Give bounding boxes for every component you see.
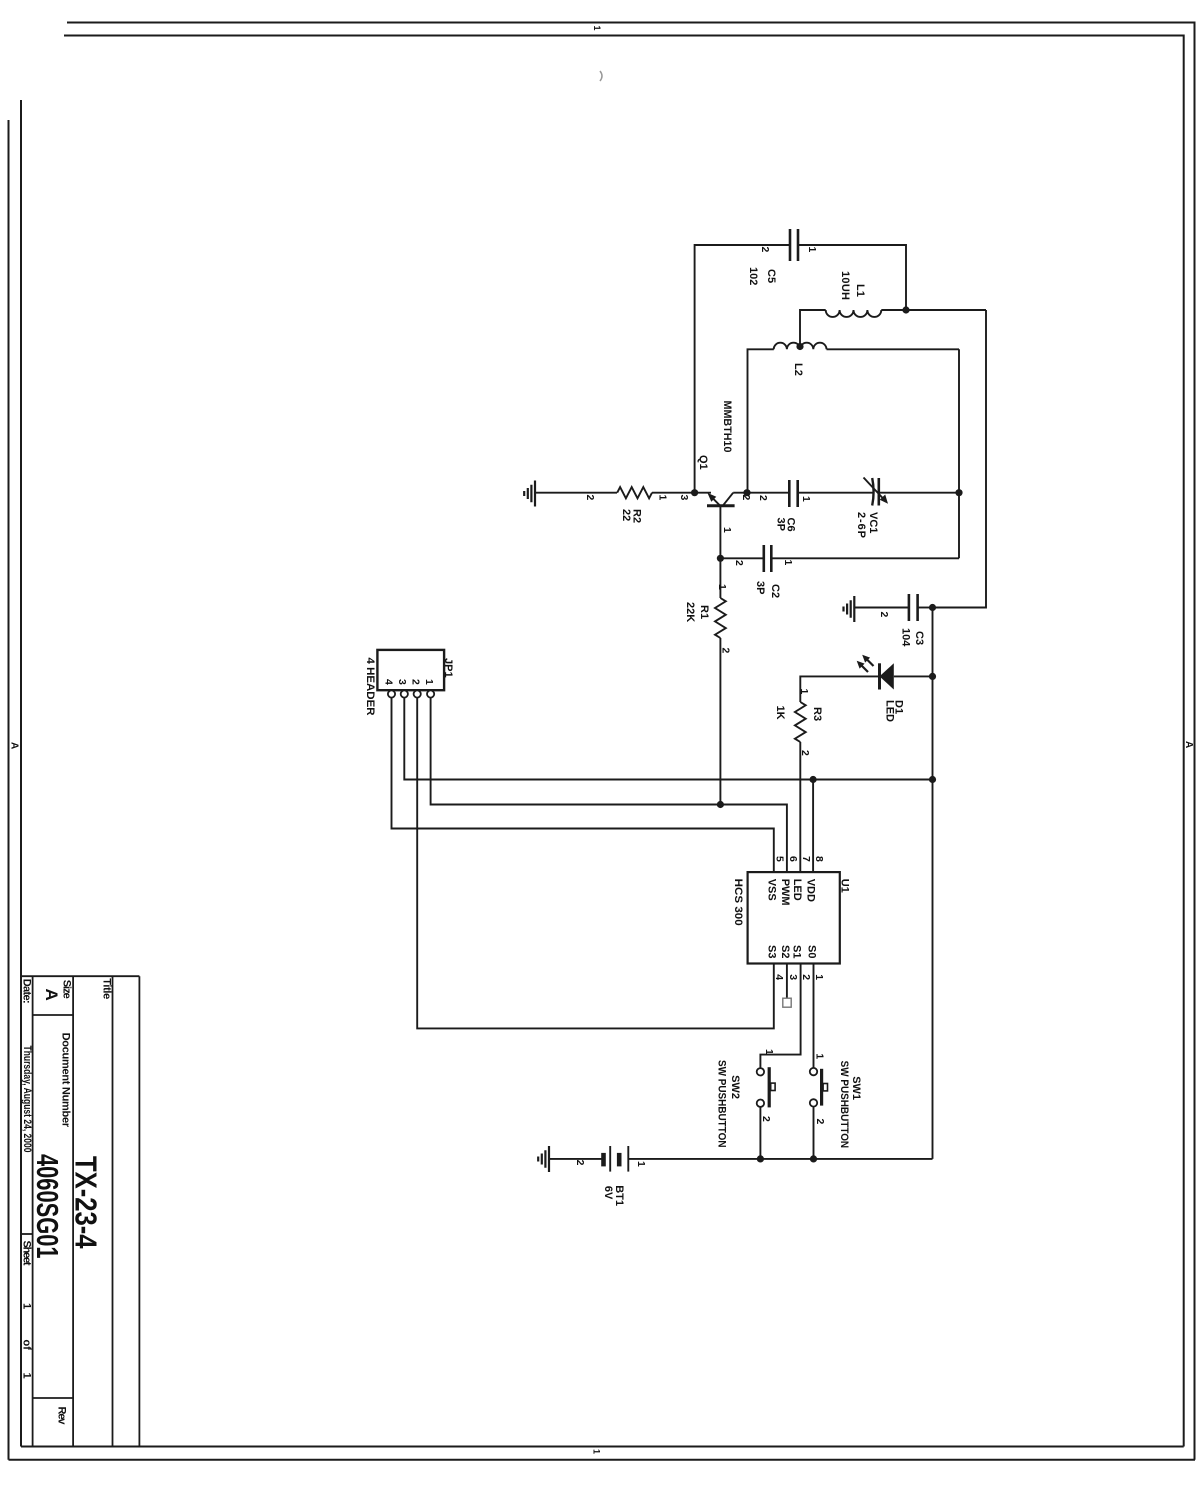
- svg-text:2: 2: [757, 495, 769, 501]
- svg-text:6: 6: [787, 856, 799, 862]
- wire R1 to wire B: [719, 638, 721, 805]
- svg-text:2: 2: [760, 1116, 772, 1122]
- svg-text:Rev: Rev: [56, 1407, 68, 1426]
- svg-text:1: 1: [592, 26, 602, 31]
- variable capacitor VC1: [877, 478, 880, 506]
- svg-text:SW2: SW2: [729, 1075, 741, 1099]
- svg-text:Sheet: Sheet: [21, 1241, 33, 1266]
- svg-text:3: 3: [787, 974, 799, 980]
- battery BT1: [627, 1146, 629, 1172]
- wire VDD rail horizontal: [932, 608, 934, 1159]
- svg-text:5: 5: [774, 856, 786, 862]
- sheet outer border left: [67, 22, 1195, 24]
- svg-text:2: 2: [814, 1119, 826, 1125]
- junction dot L2 tap: [796, 343, 803, 350]
- IC U1 box: [748, 872, 840, 963]
- junction dot C3 rail tee: [929, 604, 936, 611]
- wire top rail horizontal: [933, 310, 987, 608]
- wire U1 pin6 lead and wire B: [431, 698, 787, 873]
- svg-text:2: 2: [574, 1160, 586, 1166]
- resistor R3: [795, 702, 806, 742]
- transistor Q1 emitter lead: [710, 496, 720, 506]
- svg-text:1: 1: [635, 1161, 647, 1167]
- wire battery rail vertical: [628, 1158, 932, 1160]
- wire D1 cathode to R3: [800, 676, 879, 702]
- wire battery to ground: [549, 1158, 604, 1160]
- svg-text:22K: 22K: [684, 602, 696, 622]
- rev box divider: [33, 1397, 74, 1399]
- wire C5 bottom to emitter node: [695, 245, 790, 493]
- ground below R2: [534, 481, 536, 507]
- svg-text:R2: R2: [631, 509, 643, 523]
- svg-text:2: 2: [740, 495, 752, 501]
- svg-text:10UH: 10UH: [839, 271, 851, 300]
- wire L1 bottom lead to L2 tap: [800, 310, 826, 346]
- svg-text:22: 22: [620, 509, 632, 521]
- wire node A vertical to top rail: [906, 309, 986, 311]
- svg-text:1: 1: [763, 1049, 775, 1055]
- svg-text:C5: C5: [765, 269, 777, 283]
- wire C2 top lead: [771, 557, 959, 559]
- wire C3 top lead: [918, 607, 933, 609]
- title block divider under empty row: [112, 976, 114, 1446]
- wire U1 pin1 to SW1: [813, 964, 815, 1068]
- svg-text:L1: L1: [854, 284, 866, 297]
- wire R3 to U1 pin7: [799, 742, 801, 872]
- JP1 pin circles: [427, 690, 434, 697]
- wire SW2 pin2 lead: [759, 1107, 761, 1159]
- wire SW1 pin2 lead: [813, 1107, 815, 1159]
- transistor Q1 base bar: [707, 504, 735, 507]
- svg-text:1: 1: [423, 679, 435, 685]
- LED D1: [880, 663, 894, 689]
- svg-text:1: 1: [592, 1449, 602, 1454]
- svg-text:LED: LED: [884, 700, 896, 722]
- wire JP1 pin2 to S3: [417, 698, 774, 1029]
- wire mid rail horizontal: [958, 349, 960, 558]
- wire C2 bottom lead: [720, 557, 763, 559]
- svg-text:A: A: [42, 989, 61, 1001]
- svg-text:U1: U1: [839, 879, 851, 893]
- svg-text:1: 1: [21, 1373, 33, 1379]
- svg-text:MMBTH10: MMBTH10: [721, 401, 733, 453]
- svg-text:L2: L2: [792, 363, 804, 376]
- junction dot L1 top: [902, 306, 909, 313]
- svg-text:2: 2: [410, 679, 422, 685]
- wire A vertical: [404, 698, 932, 780]
- wire Q1 base lead: [719, 506, 721, 598]
- svg-text:2: 2: [720, 648, 732, 654]
- transistor Q1 collector lead: [723, 493, 734, 506]
- svg-text:SW1: SW1: [850, 1076, 862, 1100]
- resistor R1: [715, 598, 726, 638]
- scan smudge mark: [600, 71, 602, 81]
- svg-text:3: 3: [396, 679, 408, 685]
- svg-text:2: 2: [800, 974, 812, 980]
- junction dot wireA rail tee: [929, 776, 936, 783]
- ground below BT1: [548, 1146, 550, 1172]
- svg-text:8: 8: [813, 856, 825, 862]
- svg-text:4060SG01: 4060SG01: [30, 1154, 65, 1259]
- wire C5 top to corner: [798, 245, 906, 310]
- svg-text:1: 1: [800, 496, 812, 502]
- wire L1 top lead: [881, 309, 906, 311]
- wire U1 pin2 to SW2 jog: [760, 964, 800, 1069]
- LED D1 emission arrows: [866, 658, 874, 666]
- svg-text:Title: Title: [101, 978, 113, 999]
- svg-text:S3: S3: [766, 945, 778, 958]
- connector JP1 box: [377, 650, 444, 690]
- wire U1 pin5 lead and wire C: [392, 698, 774, 873]
- svg-text:1: 1: [657, 495, 669, 501]
- svg-text:A: A: [1183, 741, 1194, 748]
- capacitor C3: [916, 594, 919, 621]
- svg-text:Size: Size: [61, 980, 73, 999]
- junction dot collector node: [743, 489, 750, 496]
- svg-text:C2: C2: [769, 584, 781, 598]
- svg-text:of: of: [21, 1340, 33, 1351]
- svg-text:3P: 3P: [774, 518, 786, 531]
- svg-text:4 HEADER: 4 HEADER: [364, 658, 376, 716]
- svg-text:Document Number: Document Number: [60, 1033, 72, 1128]
- capacitor C6: [796, 480, 799, 507]
- wire U1 pin8 lead: [812, 780, 814, 873]
- wire L2 bottom lead: [748, 349, 774, 492]
- svg-text:S1: S1: [791, 945, 803, 958]
- wire C6 to collector node: [733, 492, 789, 494]
- svg-text:2: 2: [799, 750, 811, 756]
- svg-text:R3: R3: [811, 707, 823, 721]
- inductor L2: [774, 343, 827, 350]
- svg-text:104: 104: [900, 628, 912, 647]
- sheet inner border left: [64, 35, 1184, 37]
- title block divider under title row: [72, 976, 74, 1446]
- sheet outer border right: [9, 1459, 1196, 1461]
- svg-text:6V: 6V: [602, 1186, 614, 1200]
- svg-text:BT1: BT1: [613, 1185, 625, 1206]
- junction dot R1 wire B tee: [717, 801, 724, 808]
- svg-text:7: 7: [800, 856, 812, 862]
- ground below C3: [853, 596, 855, 622]
- switch SW2: [757, 1068, 764, 1075]
- junction dot pin8 wireA tee: [810, 776, 817, 783]
- svg-text:1: 1: [798, 689, 810, 695]
- svg-text:Thursday, August 24, 2000: Thursday, August 24, 2000: [21, 1046, 33, 1153]
- size box divider: [33, 1014, 74, 1016]
- title block divider under size row: [32, 976, 34, 1446]
- junction dot SW2 battery rail: [757, 1155, 764, 1162]
- svg-text:S0: S0: [806, 945, 818, 958]
- svg-text:1: 1: [21, 1303, 33, 1309]
- junction dot C2 bottom tee: [717, 555, 724, 562]
- svg-text:HCS 300: HCS 300: [732, 879, 744, 926]
- junction dot C2 VC1 rail tee: [955, 489, 962, 496]
- svg-text:Q1: Q1: [697, 455, 709, 470]
- svg-text:3: 3: [678, 495, 690, 501]
- svg-text:2: 2: [759, 247, 771, 253]
- resistor R2: [617, 487, 652, 498]
- no-connect box on S2: [783, 998, 791, 1007]
- svg-text:102: 102: [747, 267, 759, 285]
- capacitor C5: [797, 229, 800, 261]
- svg-text:SW PUSHBUTTON: SW PUSHBUTTON: [716, 1060, 728, 1148]
- svg-text:VC1: VC1: [867, 512, 879, 533]
- junction dot emitter node: [691, 489, 698, 496]
- svg-text:1: 1: [806, 247, 818, 253]
- svg-text:3P: 3P: [754, 581, 766, 594]
- svg-text:2: 2: [733, 560, 745, 566]
- svg-text:2: 2: [584, 495, 596, 501]
- svg-text:1: 1: [813, 974, 825, 980]
- svg-text:4: 4: [383, 679, 395, 685]
- svg-text:Date:: Date:: [20, 979, 32, 1004]
- svg-text:C3: C3: [913, 631, 925, 645]
- title block top line: [138, 976, 140, 1446]
- sheet outer border bottom: [8, 120, 10, 1460]
- svg-text:1: 1: [814, 1053, 826, 1059]
- wire U1 pin3 stub: [786, 964, 788, 999]
- svg-text:S2: S2: [779, 945, 791, 958]
- sheet inner border right: [21, 1446, 1184, 1448]
- sheet outer border top: [1194, 22, 1196, 1460]
- svg-text:4: 4: [773, 974, 785, 980]
- junction dot D1 rail tee: [929, 673, 936, 680]
- svg-text:SW PUSHBUTTON: SW PUSHBUTTON: [838, 1061, 850, 1149]
- wire C3 bottom lead: [854, 607, 909, 609]
- svg-text:1: 1: [716, 584, 728, 590]
- svg-text:LED: LED: [791, 879, 803, 901]
- switch SW1: [810, 1068, 817, 1075]
- wire main left rail top: [879, 492, 959, 494]
- inductor L1: [826, 310, 882, 317]
- sheet inner border top: [1183, 35, 1185, 1447]
- svg-text:A: A: [9, 742, 20, 749]
- svg-text:R1: R1: [698, 605, 710, 619]
- svg-text:1: 1: [782, 560, 794, 566]
- svg-text:TX-23-4: TX-23-4: [69, 1156, 104, 1249]
- wire R2 to ground: [535, 492, 617, 494]
- svg-text:1: 1: [721, 527, 733, 533]
- sheet box divider: [21, 1233, 33, 1235]
- capacitor C2: [770, 545, 773, 572]
- svg-text:1K: 1K: [774, 706, 786, 720]
- title block left line: [21, 975, 139, 977]
- svg-text:VDD: VDD: [804, 879, 816, 902]
- wire VC1 to C6: [798, 492, 873, 494]
- sheet inner border bottom: [20, 100, 22, 1447]
- wire emitter rail: [652, 492, 711, 494]
- svg-text:2-6P: 2-6P: [855, 512, 867, 538]
- svg-text:VSS: VSS: [766, 879, 778, 901]
- svg-text:PWM: PWM: [779, 879, 791, 906]
- wire D1 anode lead: [894, 675, 933, 677]
- svg-text:2: 2: [878, 612, 890, 618]
- wire L2 top lead: [827, 348, 960, 350]
- junction dot SW1 battery rail: [810, 1155, 817, 1162]
- svg-text:JP1: JP1: [442, 658, 454, 678]
